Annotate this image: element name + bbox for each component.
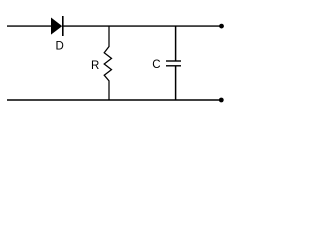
svg-text:C: C bbox=[152, 59, 160, 71]
svg-text:R: R bbox=[91, 60, 99, 72]
svg-text:D: D bbox=[56, 41, 64, 53]
